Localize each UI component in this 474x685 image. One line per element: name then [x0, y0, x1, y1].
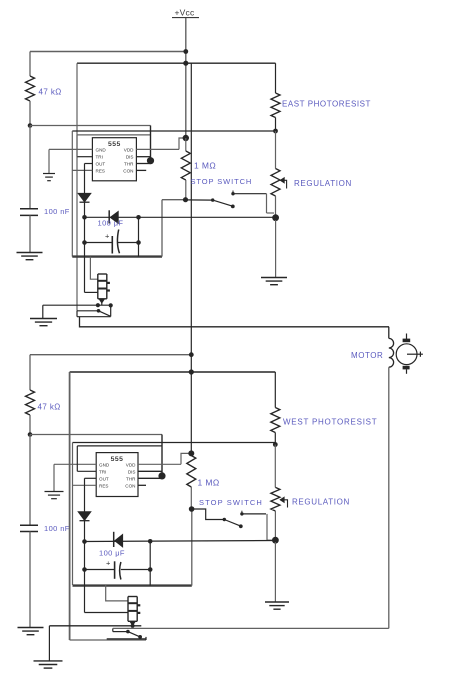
- wire R5 node down: [29, 435, 31, 526]
- svg-text:VDD: VDD: [124, 147, 134, 152]
- switch S2 lever tip: [239, 524, 243, 528]
- pin U1 GND wire: [49, 148, 92, 150]
- pin U2 OUT wire: [85, 477, 97, 479]
- wire REG1 bottom: [275, 196, 277, 218]
- svg-text:+Vcc: +Vcc: [175, 8, 195, 18]
- wire K2 to motor bus: [113, 627, 389, 629]
- wire base y292: [85, 291, 98, 293]
- svg-text:100 nF: 100 nF: [44, 524, 70, 533]
- pin U2 VDD wire: [138, 463, 181, 465]
- svg-text:CON: CON: [125, 483, 135, 488]
- wire x138 down: [138, 217, 140, 242]
- wire TRI feedback y135: [77, 134, 151, 136]
- wire bus to Q1 top: [90, 257, 97, 280]
- wire switch pole: [186, 199, 213, 201]
- relay contact K2: [107, 628, 146, 640]
- svg-text:+: +: [105, 231, 110, 240]
- svg-text:47 kΩ: 47 kΩ: [38, 403, 61, 412]
- junction Vcc-east: [183, 61, 188, 66]
- diode D3: [78, 512, 91, 521]
- wire base2 y612: [85, 612, 129, 614]
- svg-text:GND: GND: [99, 462, 110, 467]
- wire inner edge x72: [72, 443, 74, 586]
- pin U1 THR wire: [136, 163, 150, 165]
- wire cap bus y242 left: [85, 242, 113, 244]
- junction pot-ground node: [272, 214, 279, 221]
- svg-text:TRI: TRI: [99, 469, 106, 474]
- diode D1 anode wire: [84, 164, 86, 194]
- svg-text:GND: GND: [96, 147, 107, 152]
- ground below REG1: [261, 278, 287, 285]
- junction y567 right: [148, 567, 153, 572]
- capacitor C4 plus: [106, 558, 111, 567]
- resistor R5 value 47 kOhm: [38, 403, 61, 412]
- junction bus-right: [136, 215, 141, 220]
- pin U1 RES wire: [72, 169, 92, 171]
- wire node2 to ground: [274, 542, 276, 602]
- wire emitter bus2 y625: [49, 625, 141, 627]
- svg-text:REGULATION: REGULATION: [292, 498, 350, 507]
- wire VDD jog: [179, 138, 186, 149]
- potentiometer REG1 wiper: [280, 178, 287, 189]
- capacitor C3 100nF: [20, 525, 38, 531]
- wire left edge x72: [71, 131, 73, 257]
- switch S1 lever: [213, 200, 233, 206]
- diode D3 cathode wire: [84, 521, 86, 542]
- label STOP SWITCH 2: [199, 498, 263, 507]
- pin U1 CON stub: [136, 169, 146, 171]
- diode D2: [109, 210, 118, 223]
- wire contact2 to regulation: [242, 513, 266, 515]
- pin U2 CON stub: [138, 484, 146, 486]
- svg-text:MOTOR: MOTOR: [351, 351, 383, 360]
- junction stop-switch2 node: [189, 506, 195, 512]
- junction supply2: [189, 369, 194, 374]
- wire sense bus y131: [72, 130, 275, 132]
- op-amp U1 pin labels: [96, 147, 135, 173]
- wire cap bus2 left: [85, 569, 115, 571]
- wire GND stem: [48, 149, 50, 173]
- capacitor C4 value 100 uF: [99, 549, 125, 558]
- wire drop2 x267: [266, 514, 268, 537]
- junction bus2-left: [82, 539, 87, 544]
- junction emitter: [96, 303, 100, 307]
- wire ground stem x43: [42, 305, 44, 318]
- transistor Q1 emitter: [99, 299, 104, 305]
- potentiometer REG2: [271, 487, 280, 511]
- wire bottom bus y256: [72, 255, 162, 257]
- wire +Vcc rail: [185, 18, 187, 138]
- capacitor C2 plus: [105, 231, 110, 240]
- op-amp U2 555 title: [111, 456, 124, 463]
- junction rail2: [189, 352, 194, 357]
- motor M1 brushes: [403, 339, 411, 370]
- potentiometer REG1: [271, 169, 280, 197]
- wire R1 node down to C1: [29, 126, 31, 209]
- wire TRI2 feedback y446: [77, 445, 162, 447]
- wire bottom bus2 y585: [73, 584, 192, 586]
- wire cap bus y242 right: [117, 242, 138, 244]
- junction R5 node: [28, 432, 33, 437]
- motor M1 stubs: [406, 334, 408, 374]
- svg-text:1 MΩ: 1 MΩ: [198, 478, 220, 488]
- label EAST PHOTORESIST: [282, 100, 371, 109]
- svg-text:STOP SWITCH: STOP SWITCH: [191, 177, 253, 186]
- svg-text:555: 555: [108, 141, 121, 148]
- wire REG2 bottom: [274, 511, 276, 540]
- wire TRI riser x77: [76, 135, 78, 157]
- wire top rail to R1: [30, 51, 187, 53]
- label WEST PHOTORESIST: [283, 418, 377, 427]
- svg-text:THR: THR: [124, 162, 134, 167]
- ground at U2 GND: [45, 492, 64, 499]
- transistor Q2 emitter: [130, 621, 135, 626]
- wire DIS/THR drop2 x162: [161, 435, 163, 474]
- wire DIS/THR drop x150: [150, 126, 152, 159]
- svg-text:47 kΩ: 47 kΩ: [39, 88, 62, 97]
- wire emitter bus y305: [43, 304, 111, 306]
- junction DIS-THR blob: [147, 157, 154, 164]
- wire TRI2 riser x77: [76, 446, 78, 471]
- wire west left edge x69: [69, 372, 71, 640]
- op-amp U1 555 title: [108, 141, 121, 148]
- wire east-rail drop at x77: [76, 63, 78, 311]
- inductor motor coil: [389, 338, 394, 367]
- pin U2 THR wire: [138, 477, 162, 479]
- wire x150 down: [149, 541, 151, 569]
- junction rail-1M2: [188, 450, 194, 456]
- svg-text:TRI: TRI: [96, 155, 103, 160]
- junction stop-switch node: [183, 197, 188, 202]
- capacitor C1 100nF: [20, 209, 38, 216]
- wire R2 bottom: [185, 180, 187, 200]
- wire GND2 stem: [53, 464, 55, 491]
- switch S1 contact: [231, 191, 234, 196]
- wire upper cap bus2 y541: [85, 541, 276, 542]
- svg-text:CON: CON: [123, 168, 133, 173]
- switch S2 contact: [240, 511, 243, 516]
- ground below C3: [18, 628, 44, 635]
- junction R1 node: [28, 123, 33, 128]
- photoresistor EAST: [271, 93, 280, 118]
- resistor R2 1M: [181, 151, 190, 180]
- wire x84 down: [84, 217, 86, 242]
- ground mid left: [30, 319, 57, 326]
- motor M1 body: [396, 344, 417, 365]
- ground bottom left: [34, 661, 63, 668]
- wire switch2 jog: [192, 509, 225, 520]
- ground below REG2: [265, 602, 289, 609]
- junction y242 left: [82, 240, 87, 245]
- wire K1 to motor bus: [80, 317, 390, 327]
- wire x84 to base: [84, 243, 86, 293]
- svg-text:STOP SWITCH: STOP SWITCH: [199, 498, 263, 507]
- op-amp U2 555 box: [96, 453, 138, 497]
- pin U2 RES wire: [73, 484, 97, 486]
- svg-text:DIS: DIS: [128, 469, 136, 474]
- pin U1 DIS wire: [136, 156, 150, 158]
- diode D1: [78, 193, 91, 202]
- wire contact to regulation: [233, 193, 267, 195]
- wire into pot node: [267, 212, 275, 214]
- svg-text:100 μF: 100 μF: [98, 219, 124, 228]
- wire riser x162: [161, 200, 163, 257]
- pin U1 TRI wire: [77, 156, 92, 158]
- pin U2 GND wire: [54, 463, 96, 465]
- junction bus2-right: [148, 539, 153, 544]
- wire center rail to west block: [190, 63, 192, 453]
- capacitor C4 100uF: [115, 561, 121, 579]
- wire EAST bottom: [275, 118, 277, 132]
- junction east node: [273, 129, 278, 134]
- wire C3 to ground: [29, 532, 31, 628]
- relay contact K1: [77, 305, 111, 316]
- junction bus-left: [82, 215, 87, 220]
- ground at U1 GND: [43, 174, 55, 181]
- wire into pot2 node: [267, 537, 272, 541]
- resistor R5 47k lead: [29, 355, 31, 390]
- wire cap bus2 right: [121, 569, 150, 571]
- label REGULATION 2: [292, 498, 350, 507]
- wire R1 node to 555 sense: [30, 125, 151, 127]
- svg-text:555: 555: [111, 456, 124, 463]
- wire C1 to ground: [29, 215, 31, 252]
- wire R7 bottom: [190, 487, 192, 509]
- resistor R7 1M: [187, 456, 196, 488]
- svg-text:100 nF: 100 nF: [44, 207, 70, 216]
- label STOP SWITCH: [191, 177, 253, 186]
- diode D4: [114, 532, 123, 547]
- wire supply to east photoresistor: [77, 62, 276, 64]
- svg-text:+: +: [106, 558, 111, 567]
- pin U2 TRI wire: [77, 470, 96, 472]
- photoresistor WEST lead: [274, 372, 276, 408]
- wire west node to REG2: [274, 445, 276, 488]
- junction emitter2: [131, 624, 135, 628]
- svg-text:VDD: VDD: [126, 462, 136, 467]
- svg-text:REGULATION: REGULATION: [294, 179, 352, 188]
- diode D1 cathode wire: [84, 202, 86, 217]
- svg-text:EAST PHOTORESIST: EAST PHOTORESIST: [282, 100, 371, 109]
- resistor R7 value 1 MOhm: [198, 478, 220, 488]
- resistor R1 value 47 kOhm: [39, 88, 62, 97]
- op-amp U2 pin labels: [99, 462, 136, 488]
- wire WEST bottom: [274, 433, 276, 445]
- wire x84 to base2: [84, 570, 86, 613]
- pin U1 OUT wire: [85, 163, 93, 165]
- diode D3 anode wire: [84, 478, 86, 512]
- wire bus2 to Q2 top: [106, 585, 128, 601]
- transistor Q1: [98, 274, 110, 299]
- wire east node to REG1: [275, 131, 277, 169]
- wire motor bottom lead: [388, 367, 390, 628]
- resistor R2 1M lead: [185, 138, 187, 151]
- svg-text:RES: RES: [96, 168, 105, 173]
- switch S1 pole dot: [211, 198, 214, 201]
- junction y567 left: [82, 567, 87, 572]
- capacitor C2 value 100 uF: [98, 219, 124, 228]
- photoresistor EAST lead: [275, 63, 277, 93]
- pin U2 DIS wire: [138, 470, 162, 472]
- pin U1 VDD wire: [136, 148, 179, 150]
- potentiometer REG2 wiper: [280, 497, 288, 507]
- resistor R2 value 1 MOhm: [194, 161, 216, 171]
- svg-text:DIS: DIS: [126, 155, 134, 160]
- wire x150 to bottom bus: [149, 570, 151, 586]
- switch S2 lever: [224, 520, 240, 527]
- wire top rail2 y354: [30, 354, 191, 356]
- wire to switch junction y199: [162, 199, 186, 201]
- wire motor top lead: [388, 327, 390, 339]
- capacitor C1 value 100 nF: [44, 207, 70, 216]
- junction DIS-THR blob2: [158, 472, 165, 479]
- label MOTOR: [351, 351, 383, 360]
- junction Vcc-1M: [183, 135, 189, 141]
- junction Vcc-R1: [183, 49, 188, 54]
- junction pot2-ground node: [272, 537, 279, 544]
- switch S2 pole dot: [223, 518, 226, 521]
- resistor R5 47k: [26, 390, 35, 415]
- junction bus end: [109, 303, 113, 307]
- svg-text:OUT: OUT: [96, 162, 106, 167]
- wire sense bus2 y442: [73, 442, 276, 444]
- wire R5 node to 555: [30, 434, 162, 436]
- svg-text:OUT: OUT: [99, 476, 109, 481]
- svg-text:100 μF: 100 μF: [99, 549, 125, 558]
- svg-text:1 MΩ: 1 MΩ: [194, 161, 216, 171]
- capacitor C2 100uF: [112, 230, 119, 254]
- wire x138 to bottom bus: [138, 243, 140, 257]
- wire x84 down2: [84, 542, 86, 570]
- op-amp U1 555 box: [92, 138, 136, 181]
- wire VDD2 jog: [181, 453, 191, 464]
- wire riser2 x191: [191, 509, 193, 586]
- switch S1 lever tip: [231, 205, 235, 209]
- resistor R1 47k lead top: [29, 52, 31, 77]
- wire drop x266: [266, 194, 268, 213]
- label REGULATION: [294, 179, 352, 188]
- wire supply2 y372: [70, 371, 276, 373]
- junction y242 right: [136, 240, 141, 245]
- junction west node: [273, 442, 278, 447]
- svg-text:RES: RES: [99, 483, 108, 488]
- wire upper cap bus y217: [85, 216, 276, 218]
- wire ground stem2: [48, 626, 50, 661]
- svg-text:THR: THR: [126, 476, 136, 481]
- transistor Q2: [128, 597, 140, 622]
- node +Vcc label: [172, 8, 199, 18]
- ground below C1: [17, 253, 43, 260]
- wire bottom edge y640: [70, 639, 146, 641]
- photoresistor WEST: [271, 408, 280, 433]
- capacitor C3 value 100 nF: [44, 524, 70, 533]
- wire R5 bottom: [29, 415, 31, 435]
- svg-text:WEST PHOTORESIST: WEST PHOTORESIST: [283, 418, 377, 427]
- resistor R1 47k: [26, 76, 35, 101]
- wire R1 bottom lead: [29, 101, 31, 126]
- wire node to ground: [275, 220, 277, 278]
- motor M1 shaft: [407, 352, 423, 357]
